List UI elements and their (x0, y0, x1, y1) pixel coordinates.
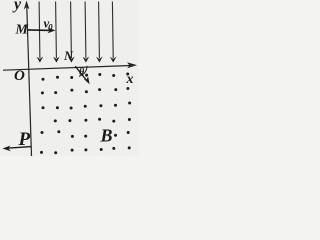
x-axis arrowhead (127, 62, 137, 68)
field line 2 (55, 2, 58, 59)
field line 1 (38, 2, 41, 59)
v0 arrow at M (28, 29, 51, 32)
field line 4 (84, 2, 87, 59)
x-axis (3, 65, 134, 70)
velocity arrow at N (75, 66, 86, 80)
angle theta arc (79, 66, 87, 77)
field line 6 (111, 2, 114, 59)
field line 3 (70, 2, 73, 59)
paper noise (0, 0, 1, 1)
y-axis (27, 4, 32, 156)
magnetic field dots (40, 73, 131, 155)
field line 5 (98, 2, 101, 59)
P arrow (7, 147, 31, 149)
y-axis arrowhead (24, 1, 30, 10)
